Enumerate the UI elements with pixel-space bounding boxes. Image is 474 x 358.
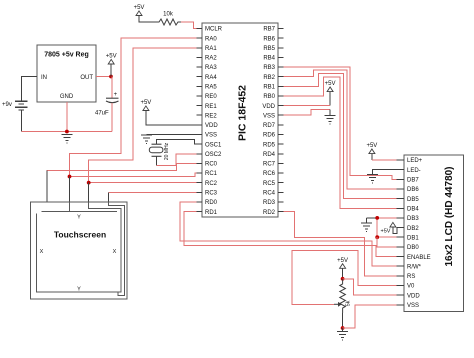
- pin RB0 (PIC right pin): [263, 94, 283, 100]
- +5V supply at LCD LED+: [366, 143, 377, 154]
- +5V supply at MCLR pullup: [134, 5, 145, 16]
- pin RB3 (PIC right pin): [263, 65, 283, 71]
- pin RE1 (PIC left pin 9): [197, 104, 218, 110]
- ground at LED-: [367, 174, 378, 183]
- svg-text:LED-: LED-: [407, 168, 421, 174]
- svg-text:OUT: OUT: [80, 75, 93, 81]
- wire +5V stem pot: [342, 268, 344, 279]
- op-amp U1 : PIC 18F452 microcontroller body: [202, 23, 278, 217]
- svg-text:V0: V0: [407, 284, 415, 290]
- pin V0 (LCD pin 14): [397, 284, 416, 290]
- wire LED+: [372, 159, 397, 161]
- svg-text:OSC2: OSC2: [205, 152, 222, 158]
- svg-text:X: X: [113, 249, 117, 255]
- svg-text:LED+: LED+: [407, 158, 423, 164]
- pin LED+ (LCD pin 1): [397, 158, 423, 164]
- svg-text:VDD: VDD: [205, 123, 218, 129]
- pin DB2 (LCD pin 8): [397, 226, 420, 232]
- wire RC2 from X2 node: [89, 182, 197, 184]
- svg-text:RC3: RC3: [205, 191, 218, 197]
- potentiometer RV1 5k: [340, 279, 346, 313]
- wire crystal bottom stub: [155, 156, 157, 165]
- pin RD0 (PIC left pin 19): [197, 200, 218, 206]
- junction 7805 OUT node: [109, 75, 113, 79]
- svg-text:RB5: RB5: [263, 46, 275, 52]
- ground under 7805: [61, 135, 72, 144]
- svg-text:RD0: RD0: [205, 200, 218, 206]
- pin RD7 (PIC right pin): [263, 123, 284, 129]
- wire pot top to LCD VDD: [343, 279, 397, 295]
- junction node touchscreen T3: [87, 181, 91, 185]
- pin DB4 (LCD pin 6): [397, 207, 420, 213]
- svg-text:RD7: RD7: [263, 123, 276, 129]
- svg-text:OSC1: OSC1: [205, 142, 222, 148]
- pin RA2 (PIC left pin 4): [197, 56, 218, 62]
- pin RD5 (PIC right pin): [263, 142, 284, 148]
- wire battery- down: [20, 110, 22, 132]
- wire pot ground stub: [342, 328, 344, 331]
- svg-text:+9v: +9v: [2, 102, 12, 108]
- pin RB1 (PIC right pin): [263, 85, 283, 91]
- ground under pot: [337, 331, 348, 340]
- wire RC3 to touchscreen T4: [109, 191, 197, 193]
- pin RB5 (PIC right pin): [263, 46, 283, 52]
- svg-text:RC6: RC6: [263, 171, 276, 177]
- wire RD2 to LCD RS: [284, 212, 397, 276]
- pin LED- (LCD pin 2): [397, 168, 421, 174]
- svg-text:RE0: RE0: [205, 94, 217, 100]
- svg-text:RA0: RA0: [205, 36, 217, 42]
- wire PIC VSS left to ground: [147, 134, 197, 136]
- svg-text:VSS: VSS: [407, 303, 419, 309]
- pin ENABLE (LCD pin 11): [397, 255, 431, 261]
- svg-text:RS: RS: [407, 274, 415, 280]
- svg-text:RB2: RB2: [263, 75, 275, 81]
- wire ground stub DB3: [366, 218, 368, 223]
- pin RC2 (PIC left pin 17): [197, 181, 218, 187]
- pin VDD (PIC left pin 11): [197, 123, 219, 129]
- svg-text:RC5: RC5: [263, 181, 276, 187]
- pin RE2 (PIC left pin 10): [197, 113, 218, 119]
- wire +5V stem LED+: [371, 154, 373, 160]
- pin VSS (PIC left pin 12): [197, 133, 218, 139]
- svg-text:RB4: RB4: [263, 56, 275, 62]
- svg-text:DB2: DB2: [407, 226, 419, 232]
- junction DB3 node: [375, 216, 379, 220]
- pin DB3 (LCD pin 7): [397, 216, 420, 222]
- svg-text:VSS: VSS: [263, 113, 275, 119]
- touchscreen bottom/left bar trace (T3): [37, 202, 121, 292]
- wire pot bottom to LCD VSS: [343, 305, 397, 328]
- pin VSS (LCD pin 16): [397, 303, 420, 309]
- svg-text:20 MHz: 20 MHz: [164, 142, 170, 160]
- pin RA0 (PIC left pin 2): [197, 36, 218, 42]
- +5V supply at 7805 OUT: [106, 54, 117, 65]
- touchscreen right bar trace (T4): [109, 202, 125, 296]
- pin RD4 (PIC right pin): [263, 152, 284, 158]
- svg-text:VSS: VSS: [205, 133, 217, 139]
- svg-text:Y: Y: [77, 215, 81, 221]
- wire PIC VDD right: [284, 105, 331, 107]
- wire 7805 GND down: [66, 102, 68, 132]
- svg-text:RD4: RD4: [263, 152, 276, 158]
- wire RA1 to touchscreen X2 node: [89, 48, 197, 183]
- wire RC0 to touchscreen T1: [47, 163, 197, 172]
- pin RC5 (PIC right pin): [263, 181, 284, 187]
- pin RB2 (PIC right pin): [263, 75, 283, 81]
- svg-text:X: X: [40, 249, 44, 255]
- svg-text:RA1: RA1: [205, 46, 217, 52]
- wire RA0 to touchscreen Y1 node: [70, 38, 197, 176]
- svg-text:ENABLE: ENABLE: [407, 255, 431, 261]
- wire ground to DB3 node: [367, 217, 378, 219]
- wire RC1 from Y1 node: [70, 173, 197, 177]
- svg-text:RD1: RD1: [205, 210, 218, 216]
- svg-text:R/W*: R/W*: [407, 264, 422, 270]
- touchscreen module body: [31, 202, 128, 299]
- wire +5V symbol stem: [110, 64, 112, 77]
- wire touchscreen T4 stub: [108, 192, 110, 202]
- svg-text:5k: 5k: [346, 300, 352, 306]
- pin RD6 (PIC right pin): [263, 133, 284, 139]
- pin RC1 (PIC left pin 16): [197, 171, 218, 177]
- wire RD1 to LCD ENABLE: [184, 212, 397, 257]
- svg-text:RA3: RA3: [205, 65, 217, 71]
- +5V supply at PIC VDD left: [140, 100, 151, 111]
- junction node touchscreen T2: [68, 175, 72, 179]
- wire ground rail bottom of 7805: [21, 131, 112, 133]
- +5V supply at PIC VDD right: [325, 81, 336, 92]
- svg-text:7805 +5v Reg: 7805 +5v Reg: [44, 52, 89, 59]
- svg-text:RC7: RC7: [263, 162, 276, 168]
- +5V supply at pot: [337, 258, 348, 269]
- svg-text:RD2: RD2: [263, 210, 276, 216]
- svg-text:RC2: RC2: [205, 181, 218, 187]
- pin RC6 (PIC right pin): [263, 171, 284, 177]
- pin RD1 (PIC left pin 20): [197, 210, 218, 216]
- pin RA5 (PIC left pin 7): [197, 85, 218, 91]
- junction pot bottom: [341, 326, 345, 330]
- svg-text:VDD: VDD: [262, 104, 275, 110]
- wire DB3 node down to DB1: [376, 218, 378, 237]
- svg-text:DB5: DB5: [407, 197, 419, 203]
- pin RS (LCD pin 13): [397, 274, 416, 280]
- svg-text:RE2: RE2: [205, 113, 217, 119]
- svg-text:DB4: DB4: [407, 207, 419, 213]
- ground at PIC VSS right: [325, 116, 336, 125]
- pin RD3 (PIC right pin): [263, 200, 284, 206]
- pin DB5 (LCD pin 5): [397, 197, 420, 203]
- pin DB1 (LCD pin 9): [397, 235, 420, 241]
- pin RD2 (PIC right pin): [263, 210, 284, 216]
- svg-text:PIC 18F452: PIC 18F452: [237, 85, 249, 141]
- svg-text:DB1: DB1: [407, 235, 419, 241]
- ground at PIC VSS left: [141, 135, 152, 144]
- wire DB1: [377, 236, 396, 238]
- node DB2 +5V tie: [393, 227, 397, 234]
- pin DB6 (LCD pin 4): [397, 187, 420, 193]
- pin OSC2 (PIC left pin 14): [197, 152, 223, 158]
- pin RB4 (PIC right pin): [263, 56, 283, 62]
- wire R1 to MCLR: [181, 22, 197, 29]
- svg-text:RD3: RD3: [263, 200, 276, 206]
- wire touchscreen T1 stub: [46, 171, 48, 203]
- svg-text:10k: 10k: [163, 12, 174, 18]
- pin RA1 (PIC left pin 3): [197, 46, 218, 52]
- wire +5V to PIC VDD left: [146, 111, 197, 125]
- pin RB6 (PIC right pin): [263, 36, 283, 42]
- junction 7805 GND / ground rail: [65, 130, 69, 134]
- svg-text:RB3: RB3: [263, 65, 275, 71]
- svg-text:16x2 LCD (HD 44780): 16x2 LCD (HD 44780): [444, 166, 455, 266]
- svg-text:RB7: RB7: [263, 27, 275, 33]
- pin DB7 (LCD pin 3): [397, 178, 420, 184]
- wire +5V stem to VDD right: [329, 92, 331, 106]
- wire LED- to ground: [372, 170, 396, 175]
- svg-text:DB3: DB3: [407, 216, 419, 222]
- svg-text:47uF: 47uF: [95, 111, 109, 117]
- wire DB0: [377, 237, 396, 247]
- junction pot top: [341, 277, 345, 281]
- svg-text:DB6: DB6: [407, 187, 419, 193]
- pin RC4 (PIC right pin): [263, 191, 284, 197]
- pin RB7 (PIC right pin): [263, 27, 283, 33]
- junction DB1 node: [375, 235, 379, 239]
- pin RA4 (PIC left pin 6): [197, 75, 218, 81]
- wire PIC VSS right: [284, 109, 331, 115]
- svg-text:RA2: RA2: [205, 56, 217, 62]
- pin VSS (PIC right pin): [263, 113, 284, 119]
- wire OSC2 to crystal bottom: [156, 154, 196, 166]
- pin VDD (PIC right pin): [262, 104, 283, 110]
- wire DB3: [377, 217, 396, 219]
- svg-text:IN: IN: [41, 75, 47, 81]
- svg-text:VDD: VDD: [407, 293, 420, 299]
- svg-text:RC0: RC0: [205, 162, 218, 168]
- pin RC7 (PIC right pin): [263, 162, 284, 168]
- svg-text:Touchscreen: Touchscreen: [54, 230, 106, 240]
- wire RB1 to LCD DB5: [284, 74, 397, 199]
- svg-text:RA4: RA4: [205, 75, 217, 81]
- wire VSS right ground stub: [329, 109, 331, 115]
- wire pot bottom: [342, 313, 344, 328]
- pin VDD (LCD pin 15): [397, 293, 421, 299]
- op-amp U3 : 16x2 LCD (HD 44780) body: [404, 155, 464, 312]
- pin OSC1 (PIC left pin 13): [197, 142, 223, 148]
- pin DB0 (LCD pin 10): [397, 245, 420, 251]
- crystal X1 20 MHz: [149, 142, 170, 160]
- svg-text:RD5: RD5: [263, 142, 276, 148]
- resistor R1 10k: [157, 19, 181, 25]
- regulator U2 : 7805 +5v Reg body: [37, 45, 96, 102]
- svg-text:RB6: RB6: [263, 36, 275, 42]
- svg-text:Y: Y: [77, 287, 81, 293]
- pin RC3 (PIC left pin 18): [197, 191, 218, 197]
- svg-text:DB7: DB7: [407, 178, 419, 184]
- svg-text:RA5: RA5: [205, 85, 217, 91]
- ground at LCD DB3: [361, 223, 372, 232]
- pin RA3 (PIC left pin 5): [197, 65, 218, 71]
- wire pot wiper to LCD V0: [292, 251, 396, 305]
- capacitor C1 47uF: [95, 77, 119, 132]
- battery BT1 +9v: [15, 101, 28, 110]
- svg-text:RC4: RC4: [263, 191, 276, 197]
- wire +5V to resistor R1: [139, 16, 157, 23]
- wire RD0 to LCD R/W*: [180, 202, 396, 266]
- wire touchscreen T2 stub: [69, 177, 71, 203]
- svg-text:RD6: RD6: [263, 133, 276, 139]
- wire RB0 to LCD DB4: [284, 77, 397, 208]
- pin R/W* (LCD pin 12): [397, 264, 422, 270]
- wire 7805 OUT to +5V node: [96, 76, 112, 78]
- svg-text:RB1: RB1: [263, 85, 275, 91]
- svg-text:MCLR: MCLR: [205, 27, 223, 33]
- pin RE0 (PIC left pin 8): [197, 94, 218, 100]
- svg-text:RE1: RE1: [205, 104, 217, 110]
- touchscreen top bar trace (T2): [42, 211, 118, 213]
- svg-text:DB0: DB0: [407, 245, 419, 251]
- svg-text:+5V: +5V: [381, 229, 391, 235]
- svg-text:RC1: RC1: [205, 171, 218, 177]
- pin MCLR (PIC left pin 1): [197, 27, 223, 33]
- wire RB3 to LCD DB7: [284, 67, 397, 179]
- svg-text:+: +: [114, 92, 118, 98]
- svg-text:GND: GND: [60, 94, 74, 100]
- svg-text:RB0: RB0: [263, 94, 275, 100]
- pin RC0 (PIC left pin 15): [197, 162, 218, 168]
- wire touchscreen T3 stub: [88, 183, 90, 202]
- wire RB2 to LCD DB6: [284, 70, 397, 189]
- wire OSC1 to crystal top: [156, 139, 196, 144]
- wire battery+ to 7805 IN: [21, 77, 37, 102]
